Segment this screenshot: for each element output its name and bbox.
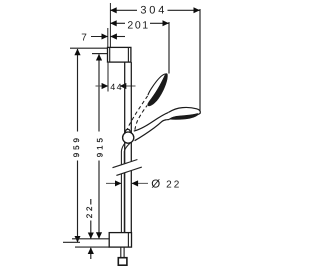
handshower head outline bbox=[167, 107, 201, 119]
hose stub below bracket bbox=[120, 247, 122, 258]
handle head junction line bbox=[168, 113, 171, 119]
dim 22 vertical bbox=[85, 199, 94, 259]
dim 304 bbox=[111, 5, 200, 17]
holder clamp nub bbox=[125, 129, 130, 133]
svg-text:304: 304 bbox=[140, 5, 167, 17]
svg-text:22: 22 bbox=[166, 180, 181, 191]
extension line raised head (201 right) bbox=[168, 22, 170, 74]
svg-text:22: 22 bbox=[85, 204, 94, 219]
raised handshower head rim (dark) bbox=[148, 74, 168, 106]
wall reference extension line bbox=[109, 3, 111, 47]
dim 44 bbox=[96, 63, 136, 92]
handshower handle top line bbox=[134, 112, 169, 131]
svg-text:Ø: Ø bbox=[151, 179, 160, 191]
dim 7 bbox=[81, 28, 125, 47]
svg-text:44: 44 bbox=[110, 82, 123, 92]
holder bbox=[123, 132, 134, 143]
extension line bracket top left bbox=[70, 47, 107, 49]
svg-text:959: 959 bbox=[72, 135, 81, 157]
bottom wall bracket bbox=[109, 233, 131, 248]
extension line 959 bottom bbox=[63, 241, 80, 243]
bar break tick upper bbox=[113, 160, 138, 168]
extension line bracket bottom bbox=[75, 246, 109, 248]
wall bracket top bbox=[108, 47, 131, 62]
svg-text:7: 7 bbox=[81, 33, 87, 44]
hose from holder bbox=[121, 143, 125, 233]
svg-text:201: 201 bbox=[127, 19, 149, 31]
dim 959 bbox=[72, 49, 81, 242]
svg-text:915: 915 bbox=[96, 135, 105, 157]
slide bar right edge bbox=[130, 62, 132, 233]
dim diameter 22 bbox=[106, 179, 181, 191]
raised handshower dashed left outline bbox=[127, 96, 147, 129]
head spray rim (dark) bbox=[170, 114, 199, 120]
hose nut bbox=[118, 258, 127, 266]
bar break tick lower bbox=[116, 167, 141, 175]
dim 201 bbox=[111, 19, 169, 31]
extension line rail top bbox=[92, 53, 107, 55]
slide bar left edge bbox=[124, 62, 126, 233]
raised handshower dashed right outline bbox=[135, 105, 147, 130]
handshower handle bottom line bbox=[135, 120, 167, 141]
raised handshower head left outline bbox=[148, 74, 167, 95]
extension line at head tip (304 right) bbox=[199, 9, 201, 114]
dim 915 bbox=[96, 54, 105, 238]
extension line hose outlet center bbox=[72, 238, 109, 240]
